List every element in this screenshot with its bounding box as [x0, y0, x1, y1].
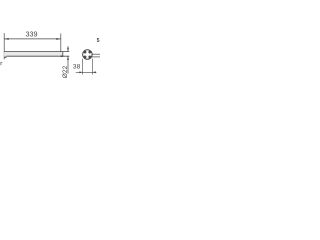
- partial cut-off mark at left edge: [1, 62, 2, 65]
- flange screw dot SE: [88, 56, 91, 59]
- wall flange circle: [83, 50, 93, 60]
- svg-text:339: 339: [26, 29, 38, 38]
- left block inner line 1: [4, 54, 6, 56]
- svg-text:Ø22: Ø22: [62, 65, 69, 78]
- left block inner line 2: [4, 57, 6, 59]
- tube end lower weld mark: [61, 55, 64, 57]
- side outlet line upper: [92, 53, 100, 55]
- svg-text:5: 5: [97, 38, 100, 44]
- diameter dim line lower segment: [67, 57, 69, 74]
- arrow left of 339 dimension: [4, 38, 9, 40]
- left end block body: [4, 52, 6, 58]
- flange screw dot SW: [84, 56, 87, 59]
- svg-text:38: 38: [73, 64, 81, 71]
- arrow down to tube top: [67, 48, 69, 52]
- extension line right of 38: [91, 59, 93, 75]
- arrow up to tube bottom: [67, 56, 69, 60]
- tube bottom edge with extension to diameter dim: [6, 55, 69, 57]
- arrow left toward right ext line: [92, 71, 95, 73]
- arrow right toward left ext line: [79, 71, 82, 73]
- tube top edge with extension to diameter dim: [4, 51, 69, 53]
- flange screw dot NE: [88, 51, 91, 54]
- dimension line 339: [4, 38, 61, 40]
- extension line right: [60, 33, 62, 56]
- dimension line 38: [76, 71, 97, 73]
- extension line left of 38: [82, 59, 84, 75]
- diameter dim line upper segment: [67, 46, 69, 51]
- tube end ring line: [62, 52, 64, 57]
- flange screw dot NW: [84, 51, 87, 54]
- side outlet line lower: [92, 56, 100, 58]
- extension line left: [3, 33, 5, 59]
- tube body shading: [4, 52, 63, 56]
- arrow right of 339 dimension: [56, 38, 61, 40]
